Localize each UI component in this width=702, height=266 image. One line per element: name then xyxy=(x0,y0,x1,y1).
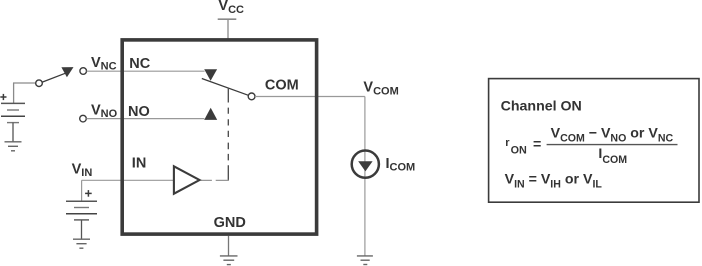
svg-text:ICOM: ICOM xyxy=(386,156,416,174)
svg-text:IN: IN xyxy=(132,156,147,172)
NO contact triangle xyxy=(204,108,217,120)
switch S1 pole circle xyxy=(36,80,43,87)
switch S1 arm xyxy=(42,73,65,82)
wire V1 to ground xyxy=(12,123,14,142)
IC U1 outline box xyxy=(122,40,316,234)
COM pole circle xyxy=(248,93,255,100)
buffer driver triangle xyxy=(174,166,200,193)
ground below U1 xyxy=(220,256,238,265)
svg-text:GND: GND xyxy=(214,215,246,231)
ground below ICOM xyxy=(357,256,373,265)
plus sign V1 xyxy=(0,94,6,100)
svg-text:NC: NC xyxy=(129,56,150,72)
terminal VNO circle xyxy=(80,115,87,122)
svg-text:VIN: VIN xyxy=(72,161,93,179)
dashed control line horizontal xyxy=(201,179,229,181)
wire VCC to U1 xyxy=(227,19,229,40)
svg-text:r: r xyxy=(505,137,510,149)
current source ICOM arrow xyxy=(358,161,372,171)
wire COM out xyxy=(255,96,365,98)
wire GND xyxy=(228,236,230,256)
svg-text:VCC: VCC xyxy=(218,0,244,16)
formula box xyxy=(489,79,699,203)
ground below V1 xyxy=(5,142,22,151)
internal switch arm xyxy=(202,79,249,96)
voltage source V1 battery xyxy=(1,103,25,122)
wire NC xyxy=(87,70,205,72)
ground below V2 xyxy=(73,239,90,248)
svg-text:ON: ON xyxy=(511,145,527,157)
svg-text:VNO: VNO xyxy=(91,103,118,121)
svg-text:Channel ON: Channel ON xyxy=(501,99,582,115)
svg-text:=: = xyxy=(533,136,541,152)
wire NO xyxy=(86,118,204,120)
wire IN xyxy=(82,179,173,181)
wire V2 to ground xyxy=(81,220,83,239)
voltage source V2 battery xyxy=(66,201,97,220)
voltage source V1 wire up xyxy=(13,83,15,103)
wire COM down xyxy=(364,97,366,256)
formula fraction bar xyxy=(547,144,678,146)
wire V1 to switch pole xyxy=(13,82,36,84)
power VCC bar xyxy=(218,18,237,20)
svg-text:VNC: VNC xyxy=(91,55,117,73)
terminal VNC circle xyxy=(80,68,87,75)
plus sign V2 xyxy=(85,190,92,197)
NC contact triangle xyxy=(204,69,217,81)
svg-text:VCOM: VCOM xyxy=(363,79,398,97)
switch S1 arrowhead xyxy=(61,67,73,77)
svg-text:NO: NO xyxy=(128,104,150,120)
wire VIN down xyxy=(81,180,83,201)
svg-text:COM: COM xyxy=(265,77,299,93)
dashed control line vertical xyxy=(227,89,229,181)
current source ICOM circle xyxy=(352,151,379,178)
